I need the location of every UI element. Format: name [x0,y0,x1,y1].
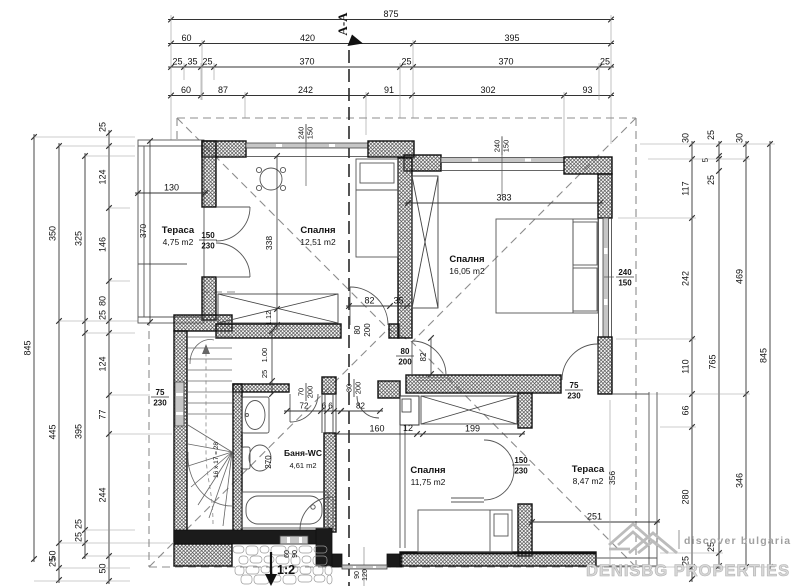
wall hall right post [378,381,400,398]
svg-text:6: 6 [322,402,327,411]
door size 70/200 bathroom [297,383,315,401]
svg-text:160: 160 [369,424,384,434]
svg-text:6: 6 [328,402,333,411]
wall stub 35 [389,324,399,338]
toilet [242,445,271,471]
svg-text:150: 150 [514,456,528,465]
svg-text:35: 35 [187,57,197,67]
svg-text:200: 200 [398,358,412,367]
svg-text:150: 150 [201,231,215,240]
bed bedroom1 [356,159,398,257]
svg-text:845: 845 [23,340,33,355]
top extension lines [171,15,611,155]
svg-text:60: 60 [284,550,291,558]
svg-text:4,61 m2: 4,61 m2 [289,461,316,470]
wall bedroom2-bedroom3 shared [406,375,561,393]
dimension right 25-5-25-765-25 [701,130,722,569]
wall bedroom2 left [398,158,412,338]
wall bedroom3 bottom [400,552,596,566]
wall right upper [598,174,612,218]
door entrance [300,497,333,530]
wall stairwell left [174,331,187,542]
wardrobe bedroom2 [412,176,438,308]
right extension lines [600,144,775,567]
shaft box [400,396,419,425]
svg-text:395: 395 [504,33,519,43]
wall hall left lower [324,433,336,532]
svg-text:302: 302 [480,85,495,95]
wall bottom transition [387,554,402,567]
svg-text:383: 383 [496,193,511,203]
svg-text:35: 35 [393,296,403,306]
dim line 90/120 vertical [363,547,365,586]
door hall wc [357,396,379,418]
svg-text:25: 25 [260,370,269,378]
wall bedroom1 bottom [216,324,341,338]
window size 240/150 top-left [297,124,315,142]
wall terrace-stair connector [174,315,232,331]
dimension right 30-117-242-110-66-280-25 [681,133,695,582]
door bedroom3 french 150/230 [451,440,514,502]
bed bedroom3 [418,510,512,552]
svg-text:356: 356 [607,471,617,485]
dim 338 vertical [276,156,278,330]
svg-text:70: 70 [297,388,306,396]
dim 370 terrace vertical [149,141,151,322]
window size 240/150 top-right [493,137,511,155]
svg-text:395: 395 [74,424,84,439]
svg-text:240: 240 [493,140,502,153]
svg-text:110: 110 [681,359,691,373]
door terrace french doors [216,207,250,277]
svg-text:242: 242 [681,271,691,286]
wall top middle block [368,141,414,157]
dimension top row 25-35-25-370-25-370-25 [168,57,614,70]
svg-text:1:2: 1:2 [277,563,295,577]
svg-text:350: 350 [48,226,58,241]
dimension left 25-124-146-80-25-124-77-244-50 [98,122,112,584]
svg-text:25: 25 [706,175,716,185]
wall bottom-left hatched corner [174,544,232,566]
left extension lines [34,137,172,581]
svg-text:150: 150 [618,279,632,288]
window bottom 90/120 [342,565,387,569]
porch stone paving [233,546,332,584]
window bedroom2 top 240/150 [441,158,564,163]
svg-text:270: 270 [264,455,273,469]
svg-text:90: 90 [354,571,361,579]
entry slope arrow 1:2 [265,552,295,586]
bed bedroom2 [496,219,598,313]
wall hall left post [322,377,336,394]
svg-text:80: 80 [345,384,354,392]
bathtub [242,492,328,528]
svg-text:80: 80 [98,296,108,306]
svg-text:200: 200 [306,386,315,399]
terrace 2 outline [596,392,657,566]
svg-text:346: 346 [735,473,745,488]
dim 82 vertical door opening [430,338,432,374]
svg-text:124: 124 [98,356,108,371]
window stairwell left 75/230 [175,382,184,426]
svg-text:Тераса: Тераса [162,225,195,236]
dimension dim 82-35 [346,296,410,309]
stairs walk line [206,350,213,524]
wall bedroom1 top left block [202,141,246,157]
svg-text:16,05 m2: 16,05 m2 [449,266,485,276]
svg-text:124: 124 [98,169,108,184]
svg-text:4,75 m2: 4,75 m2 [163,237,194,247]
wall bedroom1 left lower [202,277,216,320]
dimension top row 875 [168,9,614,22]
window bedroom2 right face lines [599,218,612,337]
svg-text:Спалня: Спалня [300,225,335,236]
svg-text:12,51 m2: 12,51 m2 [300,237,336,247]
svg-text:91: 91 [384,85,394,95]
svg-text:240: 240 [297,127,306,140]
svg-text:469: 469 [735,269,745,284]
door bathroom [290,394,318,422]
wall bathroom left [233,384,242,532]
svg-text:199: 199 [465,424,480,434]
svg-text:765: 765 [708,354,718,369]
svg-text:66: 66 [681,405,691,415]
wall bedroom3 left thin partition [400,425,405,548]
watermark logo [609,524,677,553]
svg-text:280: 280 [681,489,691,504]
door size 75/230 bedroom2 [565,381,583,401]
window size 240/150 right [616,268,634,288]
door size 80/200 hall [345,379,363,397]
window size 75/230 stairwell [151,388,169,408]
svg-text:60: 60 [181,33,191,43]
svg-text:82: 82 [364,296,374,306]
dimension left 350-445-50-25 [48,143,62,583]
svg-text:Спалня: Спалня [449,254,484,265]
svg-text:75: 75 [156,388,165,397]
svg-text:25: 25 [48,557,58,567]
svg-text:1.12: 1.12 [264,311,273,326]
roof outline dashed [149,118,636,567]
door bedroom2 upper (hall side) [412,341,446,375]
svg-text:420: 420 [300,33,315,43]
svg-text:16 x 17 = 28: 16 x 17 = 28 [213,442,220,478]
svg-text:82: 82 [419,352,428,361]
dimension top row 60-87-242-91-302-93 [168,85,614,98]
svg-text:93: 93 [582,85,592,95]
window bedroom1 inner face line [246,156,368,158]
window porch 60/90 [280,536,308,544]
dimension dim 82 hall [338,402,383,414]
dimension right 845 [759,141,773,570]
roof hip diagonals dashed [149,118,636,567]
svg-text:30: 30 [681,133,691,143]
svg-text:230: 230 [567,392,581,401]
svg-text:82: 82 [356,402,365,411]
svg-text:87: 87 [218,85,228,95]
svg-text:25: 25 [98,310,108,320]
svg-text:А-А: А-А [335,12,350,36]
wall bathroom top [233,384,289,392]
door frame bathroom-hall [322,394,336,433]
svg-text:338: 338 [264,236,274,250]
table bedroom1 [256,167,285,190]
svg-text:200: 200 [363,323,372,337]
terrace 1 outline [138,140,204,323]
svg-text:845: 845 [759,348,769,363]
svg-text:25: 25 [74,532,84,542]
svg-text:discover bulgaria: discover bulgaria [684,535,791,547]
svg-text:80: 80 [353,325,362,334]
sink [242,397,269,433]
svg-text:DENISBG PROPERTIES: DENISBG PROPERTIES [586,562,790,580]
svg-text:1.00: 1.00 [260,348,269,363]
svg-text:5: 5 [701,157,710,162]
door size 150/230 terrace [199,231,217,251]
dimension dim 130 [135,183,208,196]
svg-text:230: 230 [201,242,215,251]
svg-text:240: 240 [618,268,632,277]
stairs treads [188,337,232,526]
svg-text:242: 242 [298,85,313,95]
door size 150/230 bedroom3 [512,456,530,476]
wall bedroom3 bottom outer edge [400,552,596,554]
door bedroom1 to hall [350,287,388,325]
wall bedroom3 right lower [518,504,532,556]
dimension dim 251 [529,512,660,525]
dimension top row 60-420-395 [168,33,614,46]
svg-text:146: 146 [98,237,108,252]
svg-text:370: 370 [498,57,513,67]
svg-text:11,75 m2: 11,75 m2 [411,477,446,487]
svg-text:8,47 m2: 8,47 m2 [573,476,604,486]
wall right lower corner [598,337,612,394]
wardrobe bedroom1 [218,294,338,323]
svg-text:150: 150 [306,127,315,140]
svg-text:244: 244 [98,487,108,502]
section line A-A [335,12,363,586]
svg-text:130: 130 [164,183,179,193]
svg-text:230: 230 [153,399,167,408]
svg-text:75: 75 [570,381,579,390]
door bedroom2 lower 75/230 [562,344,598,380]
svg-text:Спалня: Спалня [410,465,445,476]
svg-text:90: 90 [292,550,299,558]
svg-text:Тераса: Тераса [572,464,605,475]
svg-text:Баня-WC: Баня-WC [284,448,322,458]
svg-text:60: 60 [181,85,191,95]
svg-text:230: 230 [514,467,528,476]
watermark divider [678,530,680,549]
svg-text:370: 370 [299,57,314,67]
dim 1.00-25 vertical [271,331,273,394]
svg-text:80: 80 [401,347,410,356]
dimension left 845 [23,134,37,562]
wardrobe bedroom3 [421,396,517,424]
svg-text:25: 25 [401,57,411,67]
wall bedroom3 right upper [518,393,532,428]
dimension right 30-469-346 [735,133,749,570]
svg-text:370: 370 [138,224,148,238]
window bedroom2 right 240/150 [603,218,609,337]
svg-text:50: 50 [98,563,108,573]
sill lines bedroom2 bottom wall [416,378,445,381]
dimension dim 160-12-199 [334,424,525,437]
svg-text:150: 150 [502,140,511,153]
wall bottom bathroom black [174,530,316,544]
svg-text:25: 25 [172,57,182,67]
svg-text:30: 30 [735,133,745,143]
svg-text:25: 25 [706,130,716,140]
dimension left 325-395-25-25 [74,153,88,559]
svg-text:12: 12 [403,423,413,433]
svg-text:117: 117 [681,181,691,195]
dimension dim 383 [405,193,603,206]
svg-text:72: 72 [300,402,309,411]
wall hall bottom [332,554,342,567]
svg-text:25: 25 [600,57,610,67]
svg-text:325: 325 [74,231,84,246]
svg-text:251: 251 [587,512,602,522]
wall bedroom2 top right corner [564,157,612,174]
wall bottom step [316,528,332,566]
dimension dim 72-6-6 [284,402,344,414]
window bedroom2 inner face line [441,170,564,172]
window bedroom1 top 240/150 [246,143,368,148]
svg-text:120: 120 [362,569,369,581]
wall bedroom2 top step block [404,155,441,171]
svg-text:77: 77 [98,409,108,419]
svg-text:25: 25 [98,122,108,132]
wall bedroom1 left upper [202,141,216,207]
svg-text:25: 25 [202,57,212,67]
svg-text:875: 875 [383,9,398,19]
door size 80/200 bedroom2 upper [396,347,414,367]
svg-text:25: 25 [74,519,84,529]
svg-text:200: 200 [354,382,363,395]
svg-text:445: 445 [48,424,58,439]
